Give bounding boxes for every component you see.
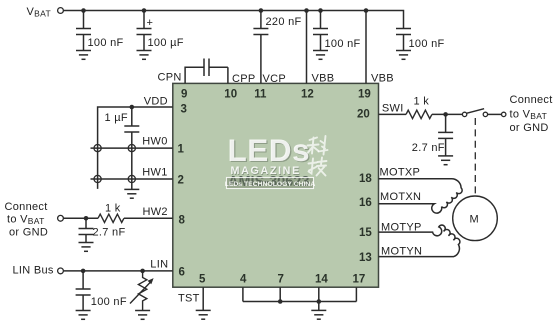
svg-text:CPN: CPN: [158, 72, 182, 84]
svg-text:13: 13: [359, 252, 372, 264]
svg-text:or GND: or GND: [9, 227, 48, 239]
svg-text:HW1: HW1: [142, 167, 167, 179]
svg-text:2: 2: [178, 175, 184, 187]
svg-text:HW2: HW2: [143, 206, 168, 218]
svg-text:Connect: Connect: [5, 201, 48, 213]
svg-text:VBB: VBB: [312, 73, 335, 85]
svg-text:MOTYN: MOTYN: [381, 246, 422, 258]
svg-text:10: 10: [224, 89, 237, 101]
svg-text:or GND: or GND: [510, 122, 549, 134]
svg-text:LEDs: LEDs: [228, 132, 311, 168]
svg-text:15: 15: [359, 227, 372, 239]
svg-text:MOTYP: MOTYP: [381, 222, 422, 234]
svg-text:9: 9: [181, 89, 187, 101]
svg-text:MOTXN: MOTXN: [380, 191, 421, 203]
svg-text:1 k: 1 k: [414, 96, 430, 108]
svg-text:to VBAT: to VBAT: [510, 109, 548, 121]
svg-text:16: 16: [359, 197, 372, 209]
svg-text:18: 18: [359, 173, 372, 185]
svg-text:100 nF: 100 nF: [91, 296, 127, 308]
svg-text:to VBAT: to VBAT: [7, 214, 45, 226]
svg-text:2.7 nF: 2.7 nF: [412, 142, 445, 154]
svg-text:LEDs TECHNOLOGY CHINA: LEDs TECHNOLOGY CHINA: [225, 181, 316, 188]
svg-text:CPP: CPP: [232, 73, 256, 85]
svg-text:20: 20: [357, 109, 370, 121]
svg-text:SWI: SWI: [382, 102, 404, 114]
svg-text:14: 14: [315, 274, 328, 286]
svg-text:2.7 nF: 2.7 nF: [93, 227, 126, 239]
svg-text:11: 11: [254, 89, 267, 101]
svg-text:4: 4: [240, 274, 247, 286]
svg-text:17: 17: [353, 274, 366, 286]
svg-text:6: 6: [179, 267, 185, 279]
svg-text:LIN Bus: LIN Bus: [13, 265, 54, 277]
svg-text:VBB: VBB: [371, 73, 394, 85]
svg-text:100 nF: 100 nF: [409, 38, 445, 50]
svg-text:5: 5: [199, 274, 206, 286]
svg-text:TST: TST: [178, 293, 200, 305]
svg-text:LIN: LIN: [150, 258, 168, 270]
svg-text:100 nF: 100 nF: [325, 38, 361, 50]
svg-text:12: 12: [301, 89, 314, 101]
svg-text:100 µF: 100 µF: [148, 37, 184, 49]
svg-text:1 µF: 1 µF: [105, 112, 128, 124]
svg-text:1 k: 1 k: [105, 203, 121, 215]
svg-text:19: 19: [358, 89, 371, 101]
svg-text:7: 7: [278, 274, 284, 286]
svg-text:220 nF: 220 nF: [266, 16, 302, 28]
svg-text:100 nF: 100 nF: [88, 37, 124, 49]
svg-text:+: +: [147, 17, 154, 29]
svg-text:MAGAZINE: MAGAZINE: [231, 165, 301, 177]
svg-text:HW0: HW0: [142, 136, 167, 148]
svg-text:Connect: Connect: [510, 94, 553, 106]
svg-text:MOTXP: MOTXP: [380, 167, 421, 179]
svg-text:3: 3: [181, 104, 187, 116]
svg-text:8: 8: [179, 215, 186, 227]
svg-text:VDD: VDD: [144, 96, 168, 108]
svg-text:VCP: VCP: [263, 73, 287, 85]
svg-text:1: 1: [178, 144, 185, 156]
svg-text:VBAT: VBAT: [27, 6, 51, 18]
svg-text:M: M: [470, 214, 479, 226]
